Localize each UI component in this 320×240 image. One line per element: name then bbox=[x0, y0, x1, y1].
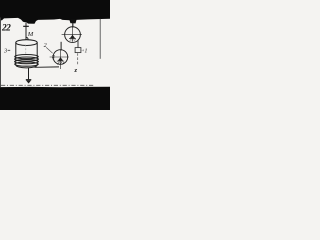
drum right side bbox=[36, 43, 38, 65]
drum axis dash line bbox=[25, 45, 27, 55]
svg-text:z: z bbox=[74, 67, 78, 74]
right wall line bbox=[99, 19, 101, 59]
svg-text:2: 2 bbox=[44, 43, 47, 49]
hatching under upper support bbox=[70, 39, 76, 41]
ground dash-dot line bbox=[1, 84, 94, 86]
dashed axis below block bbox=[77, 53, 79, 66]
bottom weight (plumb) bbox=[26, 79, 32, 80]
ceiling mount over drum bbox=[23, 26, 29, 27]
rope to weight 1 bbox=[77, 40, 79, 48]
svg-text:M: M bbox=[27, 31, 34, 38]
rope coils on drum bbox=[15, 55, 39, 59]
cord below drum bbox=[28, 68, 30, 80]
lower pulley 2 : crosshair bbox=[50, 56, 69, 58]
ceiling mount of upper pulley bbox=[70, 20, 75, 24]
hatching under lower support bbox=[57, 62, 64, 65]
svg-text:1: 1 bbox=[84, 48, 87, 55]
weight block 1 bbox=[75, 48, 81, 53]
rope from drum to lower pulley bbox=[35, 66, 60, 68]
top black scan bar bbox=[0, 0, 110, 24]
rope between pulleys bbox=[60, 42, 62, 51]
upper pulley crosshair bbox=[62, 34, 82, 36]
svg-text:22: 22 bbox=[1, 24, 11, 34]
upper pulley circle bbox=[65, 27, 81, 43]
left page edge line bbox=[0, 18, 2, 88]
lower pulley circle bbox=[53, 50, 68, 65]
upper pulley support triangle bbox=[70, 35, 75, 39]
cord from ceiling to drum bbox=[25, 23, 27, 40]
lower pulley support triangle bbox=[58, 57, 64, 61]
bottom black scan bar bbox=[0, 87, 110, 110]
leader line to label 1 bbox=[81, 49, 84, 51]
drum bottom ellipse bbox=[16, 65, 37, 68]
cord hook at drum top bbox=[26, 37, 28, 40]
svg-text:3: 3 bbox=[3, 49, 7, 55]
drum 3 : top ellipse bbox=[16, 40, 37, 46]
smudge left of lower pulley bbox=[52, 56, 55, 59]
paper background bbox=[0, 0, 110, 110]
drum left side bbox=[15, 43, 17, 65]
